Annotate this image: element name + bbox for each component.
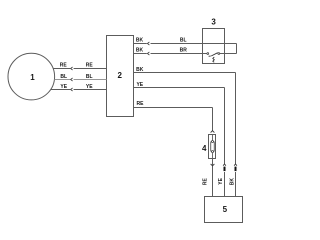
wire YE to box 5 xyxy=(224,172,226,197)
component 5 box xyxy=(205,197,243,223)
svg-text:BK: BK xyxy=(136,38,144,44)
wire BK vertical down xyxy=(235,73,237,164)
component 1 (motor) circle xyxy=(8,53,55,100)
svg-text:YE: YE xyxy=(86,84,93,90)
wire YE long (fourth) box2-to-corner xyxy=(134,87,225,89)
svg-text:BR: BR xyxy=(180,47,188,53)
svg-text:5: 5 xyxy=(223,205,228,214)
svg-text:4: 4 xyxy=(202,144,207,153)
wire RE connector-to-box2 xyxy=(74,68,107,70)
wire BK box2-to-connector (top) xyxy=(134,43,147,45)
wire BK box2-to-connector (second) xyxy=(134,53,147,55)
wire YE vertical down xyxy=(224,88,226,164)
wire BR connector-to-switch (enters box 3) xyxy=(151,53,207,55)
svg-text:BL: BL xyxy=(180,37,187,43)
svg-text:YE: YE xyxy=(60,84,67,90)
wire BK long (third) box2-to-corner xyxy=(134,72,236,74)
svg-text:YE: YE xyxy=(218,177,224,184)
wire BK to box 5 xyxy=(235,172,237,197)
fuse center line xyxy=(212,135,214,159)
component 2 (control unit) box xyxy=(107,36,134,117)
connector YE (chevron) xyxy=(71,88,73,91)
switch spring squiggle xyxy=(213,57,215,62)
component 4 (fuse) outer rect xyxy=(209,135,216,159)
svg-text:1: 1 xyxy=(30,73,35,82)
connector BK chevron up xyxy=(234,164,237,166)
fuse end cap bottom xyxy=(212,151,214,153)
switch left contact xyxy=(207,53,209,55)
svg-text:RE: RE xyxy=(86,63,94,69)
svg-text:YE: YE xyxy=(136,82,143,88)
connector YE black bar xyxy=(224,167,226,172)
connector YE chevron up xyxy=(223,164,226,166)
wire RE vertical down to fuse xyxy=(212,108,214,131)
fuse end cap top xyxy=(212,141,214,143)
svg-text:BL: BL xyxy=(60,74,67,80)
svg-text:BK: BK xyxy=(136,48,144,54)
svg-text:RE: RE xyxy=(60,63,68,69)
wire RE long (fifth) box2-to-corner xyxy=(134,107,213,109)
connector RE chevron down (below fuse) xyxy=(211,164,215,166)
switch lever xyxy=(209,53,218,57)
svg-text:BK: BK xyxy=(229,178,235,186)
svg-text:RE: RE xyxy=(203,177,209,185)
connector RE chevron up (above fuse) xyxy=(211,131,215,133)
svg-text:RE: RE xyxy=(137,101,145,107)
wire BL connector-to-loop (passes through box 3) xyxy=(151,43,237,45)
wire loop vertical (right of box 3) xyxy=(236,44,238,54)
component 3 (switch) box xyxy=(203,29,225,64)
svg-text:BK: BK xyxy=(136,67,144,73)
connector BL (chevron) xyxy=(71,78,73,81)
wire BL connector-to-box2 xyxy=(74,79,107,81)
wire YE connector-to-box2 xyxy=(74,89,107,91)
wire RE circle-to-connector xyxy=(53,68,70,70)
svg-text:BL: BL xyxy=(86,74,93,80)
connector BK black bar xyxy=(235,167,237,172)
wire YE circle-to-connector xyxy=(51,89,71,91)
wire BL circle-to-connector xyxy=(55,79,71,81)
switch right contact xyxy=(218,53,220,55)
wire RE below fuse xyxy=(212,159,214,197)
connector BK/BR (chevron) xyxy=(147,52,149,55)
connector RE (chevron) xyxy=(71,67,73,70)
connector BK/BL (chevron) xyxy=(147,42,149,45)
fuse inner cartridge xyxy=(211,141,215,152)
svg-text:2: 2 xyxy=(117,71,122,80)
wire loop return to switch contact xyxy=(220,53,237,55)
svg-text:3: 3 xyxy=(211,18,216,27)
